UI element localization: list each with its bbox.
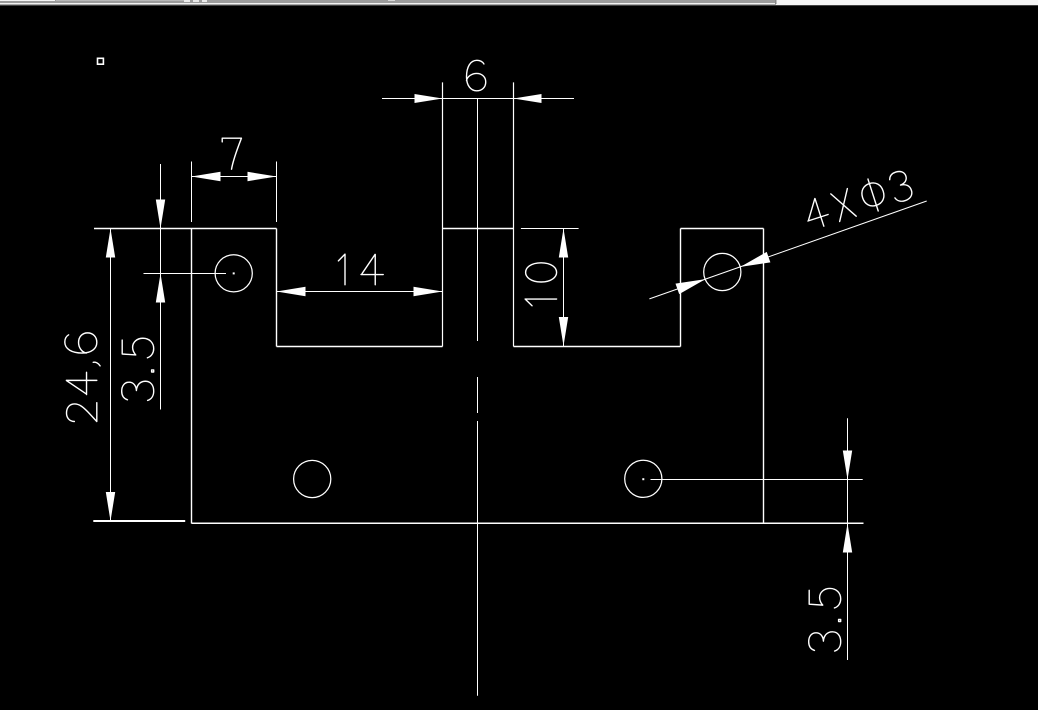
part outline: left edge bbox=[191, 229, 193, 524]
centerline of slot (dashed) bbox=[477, 99, 479, 696]
part outline: left notch bottom bbox=[277, 346, 443, 348]
dimension 3.5 (right, hole to bottom edge) bbox=[642, 418, 862, 660]
hole upper-left bbox=[215, 255, 252, 292]
dimension 3.5 (left, hole to top edge) bbox=[122, 164, 235, 410]
dimension 7 (top left) bbox=[192, 138, 277, 222]
cursor pickbox bbox=[98, 58, 104, 64]
part outline: right notch bottom bbox=[514, 346, 681, 348]
24,6 bottom extension line bbox=[93, 520, 185, 522]
leader 4XΦ3 bbox=[649, 169, 926, 299]
hole lower-left bbox=[294, 460, 331, 497]
part outline: left notch right wall + 6-dim extension bbox=[442, 82, 444, 346]
hole upper-right bbox=[704, 253, 741, 290]
part outline: right notch left wall + 6-dim extension bbox=[513, 82, 515, 346]
part outline: bottom edge (incl right extension to x=863) bbox=[192, 522, 864, 524]
part outline: top edge left tab (incl 24.6 ext to x=94) bbox=[94, 228, 277, 230]
part outline: top edge right tab bbox=[681, 228, 764, 230]
dimension 24,6 (left overall height) bbox=[65, 229, 185, 522]
part outline: right edge bbox=[763, 229, 765, 524]
part outline: left notch left wall bbox=[276, 229, 278, 347]
dimension 10 (right notch depth) bbox=[521, 229, 579, 347]
part outline: right notch right wall bbox=[680, 229, 682, 347]
hole lower-right bbox=[625, 460, 662, 497]
part outline: center tab top edge bbox=[443, 228, 514, 230]
dimension 14 (left notch) bbox=[277, 254, 443, 296]
dimension 6 (top center) bbox=[382, 60, 574, 103]
toolbar strip bbox=[0, 0, 1038, 6]
